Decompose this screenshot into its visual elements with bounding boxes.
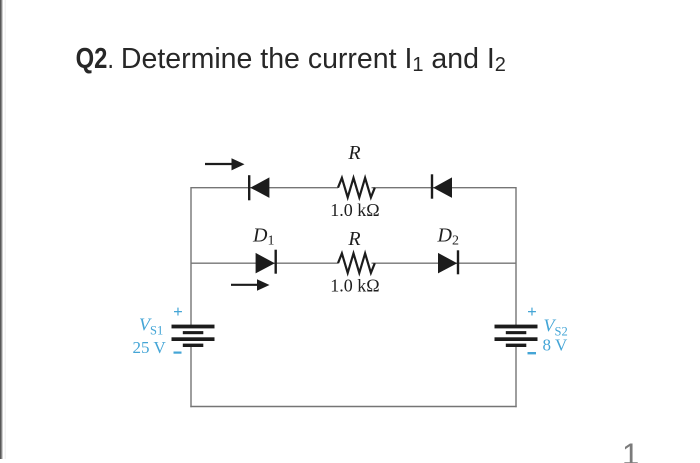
resistor R (top) <box>338 178 375 198</box>
page number 1 <box>622 436 639 463</box>
value label 1.0 kOhm (middle) <box>330 276 379 296</box>
wire: left vertical (top branch to VS1) <box>190 187 192 326</box>
label R (middle) <box>347 228 360 250</box>
wire: top branch right segment <box>372 187 517 189</box>
battery VS2 <box>495 325 538 347</box>
label VS2 <box>544 316 568 339</box>
svg-text:1: 1 <box>622 436 639 463</box>
wire: middle branch right segment <box>372 262 517 264</box>
minus sign VS1 <box>174 352 182 354</box>
diode D2 (middle branch, pointing right) <box>438 250 458 274</box>
label R (top) <box>347 142 360 164</box>
diode (top left, pointing left) <box>249 175 269 200</box>
svg-text:25 V: 25 V <box>133 338 167 357</box>
resistor R (middle) <box>338 253 375 273</box>
label D2 <box>437 225 459 249</box>
svg-text:1.0 kΩ: 1.0 kΩ <box>330 276 379 296</box>
current arrow (middle branch) <box>231 279 270 291</box>
svg-text:R: R <box>347 228 360 250</box>
value label 25 V <box>133 338 167 357</box>
value label 8 V <box>543 336 568 355</box>
value label 1.0 kOhm (top) <box>330 200 379 220</box>
wire: right vertical (VS2 to bottom) <box>515 347 517 408</box>
current arrow (top branch) <box>205 158 245 170</box>
plus sign VS1 <box>173 302 183 321</box>
label D1 <box>252 225 274 249</box>
svg-text:Q2.: Q2. <box>76 42 114 75</box>
svg-text:1.0 kΩ: 1.0 kΩ <box>330 200 379 220</box>
label VS1 <box>139 315 163 338</box>
svg-text:R: R <box>347 142 360 164</box>
scan edge line (left) <box>0 0 6 459</box>
diode (top right, pointing left) <box>432 174 452 198</box>
battery VS1 <box>172 325 215 347</box>
title: Q2. Determine the current I1 and I2 <box>76 42 506 76</box>
minus sign VS2 <box>528 352 537 354</box>
svg-text:Determine the current I1 and I: Determine the current I1 and I2 <box>121 43 506 76</box>
wire: right vertical (top branch to VS2) <box>515 187 517 326</box>
svg-text:8 V: 8 V <box>543 336 568 355</box>
wire: bottom return <box>190 406 516 408</box>
wire: top branch left segment <box>191 187 338 189</box>
svg-text:+: + <box>173 302 183 321</box>
diode D1 (middle branch, pointing right) <box>256 250 276 274</box>
plus sign VS2 <box>527 302 537 321</box>
svg-text:+: + <box>527 302 537 321</box>
wire: middle branch left segment <box>191 262 338 264</box>
wire: left vertical (VS1 to bottom) <box>190 347 192 408</box>
